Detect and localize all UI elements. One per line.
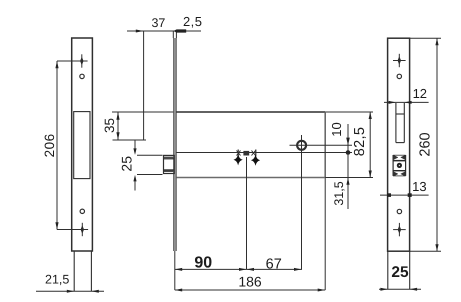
dimension 25 right: [379, 288, 421, 291]
body top edge extension right: [325, 111, 373, 113]
right plate keyhole cutout: [393, 155, 406, 176]
lock body top edge: [176, 111, 325, 113]
svg-text:82,5: 82,5: [352, 127, 368, 156]
dimension 186: [175, 289, 325, 292]
dimension 37 and 2,5 top line: [127, 29, 201, 140]
svg-text:260: 260: [417, 132, 433, 156]
body bottom edge extension right: [325, 177, 373, 179]
keyhole small cross marks: [237, 151, 256, 156]
left plate top small hole: [80, 74, 84, 78]
keyhole star left: [234, 154, 243, 165]
lock body bottom edge: [176, 177, 325, 179]
svg-text:25: 25: [119, 156, 135, 172]
right plate bolt slot: [396, 103, 404, 143]
left plate bottom screw cross-target: [76, 223, 88, 236]
svg-text:13: 13: [412, 179, 426, 194]
faceplate upper extension lines: [173, 31, 176, 38]
keyhole right tick: [255, 150, 257, 157]
cylinder hole horizontal centerline: [290, 144, 353, 146]
svg-text:67: 67: [266, 256, 282, 272]
svg-text:37: 37: [151, 16, 165, 30]
cylinder fixing hole circle: [297, 141, 306, 150]
cylinder hole vertical centerline and extension: [301, 135, 303, 269]
keyhole vertical extension line: [246, 157, 248, 269]
main axis line: [176, 152, 352, 154]
svg-text:31,5: 31,5: [332, 181, 346, 205]
svg-text:21,5: 21,5: [45, 273, 69, 287]
left plate inner raised rectangle: [74, 112, 90, 179]
dimension 35: [113, 112, 147, 140]
left plate bottom tail extension lines: [74, 251, 91, 291]
svg-text:25: 25: [391, 264, 409, 281]
right plate bottom tail extension lines: [388, 251, 410, 289]
right plate top small hole: [397, 74, 401, 78]
svg-text:206: 206: [42, 133, 57, 157]
left plate top screw cross-target: [75, 54, 87, 67]
right faceplate outline: [388, 38, 410, 251]
keyhole center block: [243, 151, 249, 156]
dimension 21,5: [36, 290, 104, 293]
svg-text:186: 186: [238, 274, 262, 290]
deadbolt: [164, 155, 175, 173]
faceplate lower extension line: [174, 251, 176, 290]
left plate bottom small hole: [80, 209, 84, 213]
svg-text:10: 10: [329, 122, 344, 136]
keyhole star right: [251, 154, 260, 165]
svg-text:2,5: 2,5: [183, 14, 202, 29]
dimension 13: [380, 193, 429, 197]
dimension line 90 and 67: [175, 268, 302, 271]
svg-text:12: 12: [413, 86, 427, 101]
body top edge extension left: [112, 111, 173, 113]
svg-text:35: 35: [102, 118, 117, 133]
dimension 82,5: [369, 112, 372, 178]
faceplate edge bar (middle view): [174, 38, 177, 251]
dimension 25 bolt: [133, 140, 162, 191]
keyhole left tick: [237, 150, 239, 157]
dimension 31,5: [346, 153, 349, 210]
svg-text:90: 90: [194, 254, 212, 271]
dimension 206: [55, 61, 88, 230]
right plate bottom screw cross-target: [393, 223, 406, 236]
dimension 260: [410, 38, 441, 251]
left strike plate outline: [72, 38, 93, 251]
body right edge extension down: [324, 178, 326, 291]
dimension 10: [346, 124, 351, 155]
lock body right edge: [324, 112, 326, 178]
right plate bottom small hole: [397, 209, 401, 213]
right plate top screw cross-target: [393, 54, 406, 67]
dimension 12: [384, 101, 429, 104]
